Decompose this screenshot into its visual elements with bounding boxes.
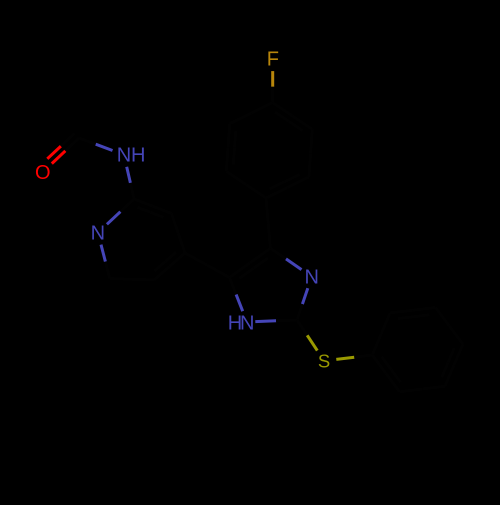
- svg-text:N: N: [304, 266, 318, 288]
- svg-text:N: N: [240, 313, 254, 335]
- svg-text:N: N: [91, 223, 105, 245]
- svg-text:S: S: [318, 350, 330, 371]
- svg-text:O: O: [35, 162, 51, 184]
- svg-text:F: F: [267, 49, 279, 71]
- svg-text:N: N: [117, 145, 131, 167]
- svg-text:H: H: [131, 145, 145, 167]
